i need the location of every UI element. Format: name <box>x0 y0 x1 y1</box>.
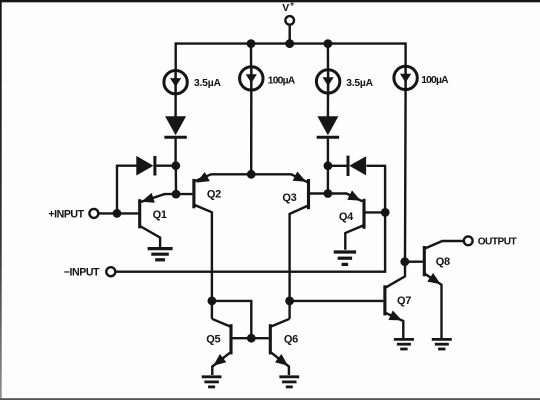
label 100uA for I4 <box>421 75 449 86</box>
svg-text:V: V <box>282 2 289 14</box>
+INPUT terminal <box>89 209 98 218</box>
diode D4 <box>348 156 366 176</box>
wire node D to node E <box>327 166 329 194</box>
current source I1 <box>164 71 187 94</box>
diode D1 <box>164 116 186 137</box>
wire Q8 collector to OUTPUT <box>425 241 464 249</box>
wire Q2 collector down <box>194 205 212 319</box>
transistor Q5 bar <box>229 324 232 354</box>
transistor Q7 bar <box>383 285 386 315</box>
transistor Q1 bar <box>138 199 141 228</box>
wire node K to Q7 base <box>290 300 384 302</box>
wire Q6 collector <box>271 319 290 327</box>
Q4 emitter arrow (PNP) <box>347 190 361 200</box>
V+ label <box>282 0 295 14</box>
node H (Q4 base tap) <box>381 208 390 217</box>
node A (anode of D2, under D1) <box>171 161 180 170</box>
wire D4 cathode to node D <box>328 165 347 167</box>
wire Q5 collector <box>212 319 231 327</box>
diode D3 <box>317 116 339 137</box>
node rail-CS3 junction <box>324 39 333 48</box>
svg-text:Q3: Q3 <box>282 192 296 204</box>
label Q8 <box>436 256 450 268</box>
wire rail to I2 <box>250 44 253 67</box>
wire Q2 base <box>176 193 192 195</box>
Q2 emitter arrow (PNP) <box>196 172 210 183</box>
wire D2 cathode to node A <box>156 164 175 166</box>
wire Q8 emitter to ground <box>425 274 442 338</box>
transistor Q3 bar <box>307 179 310 209</box>
svg-text:+: + <box>290 0 295 8</box>
wire I1 to D1 <box>174 94 176 117</box>
label 3.5uA for I1 <box>194 78 221 89</box>
node J (Q5 collector tap) <box>208 297 217 306</box>
label Q3 <box>282 192 296 204</box>
node rail-CS2 junction <box>247 39 256 48</box>
node B (Q1 emitter / Q2 base) <box>172 190 181 199</box>
node C (Q2/Q3 emitters) <box>247 170 256 179</box>
ground of Q6 <box>279 377 299 387</box>
wire Q6 base <box>251 337 268 339</box>
OUTPUT label <box>478 237 518 248</box>
wire I2 to node C <box>250 90 253 175</box>
wire Q4 collector to ground <box>345 225 363 249</box>
wire Q3 base <box>310 192 328 194</box>
wire Q3 collector down <box>290 206 308 319</box>
svg-text:Q2: Q2 <box>207 188 221 200</box>
wire Q7 emitter to ground <box>385 313 403 338</box>
transistor Q2 bar <box>192 179 195 208</box>
node E (Q3 base / Q4 emitter) <box>324 189 333 198</box>
wire I3 to D3 <box>327 93 330 117</box>
wire Q5 base <box>233 337 252 339</box>
wire Q6 emitter to ground <box>271 352 289 375</box>
wire +INPUT to Q1 base <box>98 212 138 214</box>
svg-text:Q6: Q6 <box>284 333 298 345</box>
Q5 emitter arrow (NPN) <box>213 354 226 366</box>
wire D3 to node D <box>327 139 329 166</box>
transistor Q4 bar <box>362 199 365 229</box>
ground of Q1 <box>148 249 173 260</box>
-INPUT label <box>64 267 100 279</box>
svg-text:Q1: Q1 <box>153 209 167 221</box>
svg-text:OUTPUT: OUTPUT <box>478 237 518 248</box>
wire Q4 base <box>366 211 386 213</box>
wire rail to I4 <box>404 42 406 66</box>
current source I4 <box>394 66 417 89</box>
+INPUT label <box>48 209 84 221</box>
Q7 emitter arrow (NPN) <box>389 311 403 321</box>
Q8 emitter arrow (NPN) <box>427 273 440 284</box>
wire Q5 emitter to ground <box>212 352 230 375</box>
wire node J to Q5/Q6 bases <box>212 301 251 338</box>
node K (Q6 collector tap) <box>285 297 294 306</box>
Q6 emitter arrow (NPN) <box>275 354 288 366</box>
wire -INPUT run <box>115 212 385 271</box>
label 3.5uA for I3 <box>346 78 373 89</box>
OUTPUT terminal <box>464 236 473 245</box>
svg-text:Q7: Q7 <box>397 295 411 307</box>
ground of Q8 <box>432 339 452 349</box>
svg-text:Q4: Q4 <box>339 211 354 223</box>
wire Q1 emitter <box>141 194 176 202</box>
node L (Q5/Q6 common base) <box>247 334 256 343</box>
V+ terminal <box>285 16 294 25</box>
wire Q4 emitter <box>328 194 363 202</box>
current source I2 <box>240 67 263 90</box>
wire Q2 emitter <box>194 174 251 181</box>
border bottom edge <box>0 398 540 400</box>
wire rail to I3 <box>327 42 330 70</box>
-INPUT terminal <box>106 267 115 276</box>
border left edge <box>0 0 2 400</box>
label Q7 <box>397 295 411 307</box>
svg-text:Q5: Q5 <box>206 333 220 345</box>
label Q2 <box>207 188 221 200</box>
node F (Q7 collector / Q8 base) <box>400 257 409 266</box>
ground of Q5 <box>202 377 222 387</box>
Q3 emitter arrow (PNP) <box>293 172 307 182</box>
wire Q3 emitter <box>251 174 308 182</box>
wire node F to Q8 base <box>405 261 423 263</box>
wire node H up to D4 <box>367 166 386 213</box>
wire node A to node B <box>175 166 178 194</box>
label Q5 <box>206 333 220 345</box>
wire top supply rail <box>176 42 406 44</box>
svg-text:3.5µA: 3.5µA <box>194 78 221 89</box>
wire rail to I1 <box>174 42 176 71</box>
border top edge <box>0 0 540 2</box>
wire D1 to node A <box>174 139 176 166</box>
svg-text:−INPUT: −INPUT <box>64 267 100 279</box>
diode D2 <box>136 156 155 176</box>
svg-text:Q8: Q8 <box>436 256 450 268</box>
ground of Q7 <box>394 339 414 349</box>
wire V+ stub <box>289 25 291 44</box>
transistor Q8 bar <box>423 246 426 276</box>
svg-text:+INPUT: +INPUT <box>48 209 84 221</box>
label 100uA for I2 <box>268 75 296 86</box>
node rail-V+ junction <box>285 39 294 48</box>
transistor Q6 bar <box>269 324 272 354</box>
label Q1 <box>153 209 167 221</box>
Q1 emitter arrow (PNP) <box>141 193 155 203</box>
node G (+input / D2 anode tap) <box>113 209 122 218</box>
wire Q7 collector <box>385 262 405 288</box>
label Q6 <box>284 333 298 345</box>
current source I3 <box>316 70 339 93</box>
label Q4 <box>339 211 354 223</box>
svg-text:100µA: 100µA <box>268 75 296 86</box>
svg-text:3.5µA: 3.5µA <box>346 78 373 89</box>
wire node G up to D2 <box>117 166 137 214</box>
ground of Q4 <box>334 252 356 264</box>
node D (cathode of D4, under D3) <box>324 161 333 170</box>
wire Q1 collector to ground <box>140 226 160 248</box>
svg-text:100µA: 100µA <box>421 75 449 86</box>
wire I4 to node F <box>404 89 407 261</box>
